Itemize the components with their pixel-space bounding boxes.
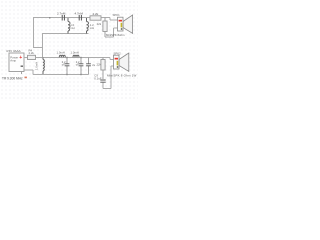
inductor L3 label (rotated) [34,62,38,70]
speaker SP2 designator label [114,52,122,56]
capacitor C6 [79,58,84,75]
capacitor C1 [62,15,64,21]
resistor R4 [28,55,36,59]
battery BT1 label [6,49,21,53]
wire second rail [43,33,89,35]
svg-text:mH: mH [70,26,74,30]
inductor L1 label [70,23,74,30]
inductor L1 [68,18,70,34]
wire battery minus to ground rail [24,70,33,75]
resistor R5 [101,58,105,80]
svg-text:MiniSPK 8 Ohm 1W: MiniSPK 8 Ohm 1W [107,73,137,77]
svg-text:SPK1: SPK1 [113,13,121,17]
capacitor C6 label [76,60,80,67]
capacitor C2 value label [75,12,84,16]
resistor R4 label [29,48,35,55]
inductor L2 [87,18,89,34]
wire speaker1 return [105,28,118,37]
battery BT1 [9,53,24,72]
capacitor C5 label [62,60,66,67]
wire battery plus [24,57,28,59]
wire mid vertical bus [42,33,44,57]
inductor L5 [73,55,79,57]
speaker SP2 part label [107,73,137,77]
junction C5 top [66,57,67,58]
junction C6 top [80,57,81,58]
capacitor C7 [86,58,91,75]
svg-text:1.0mH: 1.0mH [57,51,65,55]
inductor L4 label [57,51,65,55]
wire left vertical from top rail [34,18,43,48]
resistor R2 label [97,22,102,26]
inductor L4 [59,55,65,57]
capacitor C7 label [92,63,95,67]
speaker SP1 [118,15,133,33]
svg-text:mH: mH [90,26,94,30]
speaker SP1 designator label [113,13,121,17]
svg-text:Amp: Amp [10,59,16,63]
inductor L2 label [90,23,94,30]
svg-text:2.2k: 2.2k [93,12,99,16]
capacitor C5 [65,58,70,75]
resistor R5 label [97,63,102,67]
junction on top rail [49,17,51,19]
resistor R1 label [93,12,99,16]
wire main rail [36,58,114,60]
svg-text:1.0mH: 1.0mH [34,62,38,70]
battery stub [21,72,23,75]
inductor L5 label [71,51,79,55]
capacitor C8 label [94,74,101,81]
wire ground rail [33,74,89,76]
svg-text:1.0mH: 1.0mH [71,51,79,55]
inductor L3 [43,58,44,75]
svg-text:MiniSPK 8ohm: MiniSPK 8ohm [106,33,125,37]
svg-text:+: + [19,55,22,61]
svg-text:22k: 22k [97,22,102,26]
junction C5 bottom [66,74,67,75]
speaker SP1 part label [106,33,125,37]
caption accent [25,77,27,79]
junction C6 bottom [80,74,81,75]
svg-text:2.2k: 2.2k [29,51,35,55]
svg-text:TR 9.300 MHz: TR 9.300 MHz [2,76,23,80]
capacitor C2 [79,15,81,21]
caption text TR [2,76,23,80]
capacitor C8 [100,80,105,82]
resistor R1 [90,16,101,20]
resistor R2 [103,18,107,38]
wire top rail [33,18,118,21]
capacitor C1 value label [57,12,66,16]
speaker SP2 [114,53,129,71]
wire speaker2 return [103,66,114,89]
